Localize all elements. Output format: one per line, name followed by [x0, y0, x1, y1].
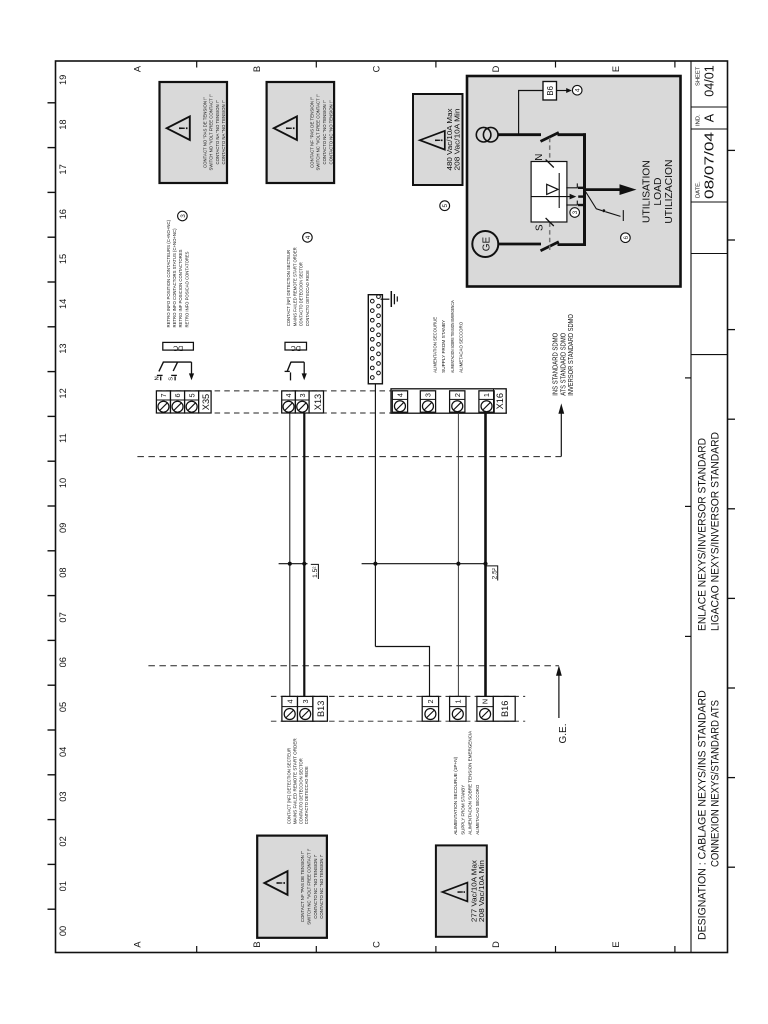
svg-text:A: A — [703, 113, 717, 122]
svg-text:LOAD: LOAD — [653, 178, 664, 206]
balloon 3 (X35) — [178, 211, 188, 221]
svg-text:04: 04 — [58, 747, 68, 757]
svg-text:4: 4 — [305, 235, 312, 239]
contact hook N — [566, 183, 585, 187]
svg-text:!: ! — [274, 881, 288, 885]
svg-text:INVERSOR STANDARD SDMO: INVERSOR STANDARD SDMO — [568, 314, 575, 396]
wire X13-4 to B13-4 — [289, 413, 291, 696]
svg-text:01: 01 — [58, 881, 68, 891]
warning box 480Vac — [413, 94, 463, 185]
B6 arrow — [557, 88, 572, 93]
wire GE drop — [498, 243, 541, 246]
control box — [531, 162, 567, 223]
warning box W2 contact NF — [267, 82, 335, 183]
svg-text:DC: DC — [173, 344, 183, 351]
svg-text:ALIMETACAO SECCORO: ALIMETACAO SECCORO — [475, 785, 481, 835]
row zone ticks left edge — [197, 946, 675, 953]
svg-text:1: 1 — [453, 699, 462, 703]
contact group above X35 (retro info) — [154, 362, 194, 381]
svg-text:ALIMENTACION SOBRE TENSION EME: ALIMENTACION SOBRE TENSION EMERGENCIA — [468, 730, 474, 835]
svg-text:CONTACTO DETECCION SECTOR: CONTACTO DETECCION SECTOR — [298, 758, 304, 824]
svg-text:D: D — [491, 65, 501, 72]
svg-text:RETRO INF POSICION CONTACTORES: RETRO INF POSICION CONTACTORES — [178, 250, 184, 328]
balloon 5 (480 box) — [440, 201, 450, 211]
svg-text:IND.: IND. — [696, 114, 702, 126]
zone dashed line 2 (GE boundary) — [148, 665, 559, 667]
svg-text:6: 6 — [173, 393, 182, 397]
svg-text:DC: DC — [291, 344, 301, 351]
terminal block X16 — [391, 389, 506, 413]
wire mains lower — [558, 133, 586, 136]
svg-text:16: 16 — [58, 209, 68, 219]
svg-text:2: 2 — [453, 393, 462, 397]
svg-text:CONTACT NO "PAS DE TENSION !": CONTACT NO "PAS DE TENSION !" — [202, 97, 207, 168]
label INS STANDARD SDMO with arrow — [553, 314, 575, 457]
svg-text:19: 19 — [58, 75, 68, 85]
svg-text:CONTACTO NC "NO TENSION !": CONTACTO NC "NO TENSION !" — [322, 100, 327, 164]
common line with arrow — [531, 194, 576, 200]
label G.E. with arrow — [556, 665, 569, 743]
balloon 4 (X13) — [303, 233, 313, 243]
svg-text:B13: B13 — [316, 701, 326, 717]
svg-text:04/01: 04/01 — [703, 65, 717, 97]
svg-text:S: S — [169, 377, 175, 381]
svg-text:!: ! — [456, 890, 468, 894]
svg-text:SUPPLY FROM STANBY: SUPPLY FROM STANBY — [441, 319, 447, 373]
svg-text:DATE.: DATE. — [696, 181, 702, 198]
terminal block B13 — [282, 696, 328, 721]
svg-text:CONTACTO DETECCAO REDE: CONTACTO DETECCAO REDE — [304, 766, 310, 824]
svg-text:06: 06 — [58, 657, 68, 667]
svg-text:X35: X35 — [201, 394, 211, 410]
svg-text:C: C — [372, 941, 382, 948]
label 2.5mm — [487, 566, 499, 581]
svg-text:UTILISATION: UTILISATION — [642, 160, 653, 223]
svg-text:SHEET: SHEET — [696, 66, 702, 86]
terminal block B16 — [422, 696, 515, 721]
svg-text:ALIMETACAO SECCORO: ALIMETACAO SECCORO — [459, 322, 465, 373]
svg-text:SWITCH NC "VOLT FREE CONTACT !: SWITCH NC "VOLT FREE CONTACT !" — [307, 848, 312, 924]
warning box 277Vac — [436, 845, 487, 936]
svg-text:C: C — [372, 65, 382, 72]
ATS enclosure box — [467, 76, 681, 287]
svg-text:E: E — [611, 66, 621, 72]
svg-text:CONTACTO DETECCAO REDE: CONTACTO DETECCAO REDE — [305, 270, 311, 326]
ground symbol — [381, 291, 398, 307]
GE switch blade — [541, 242, 559, 251]
cable marker junction 1.5 — [279, 562, 308, 566]
balloon 4 (B6) — [572, 85, 582, 95]
svg-text:6: 6 — [623, 235, 630, 239]
output bus — [583, 133, 586, 246]
svg-text:277 Vac/10A Max: 277 Vac/10A Max — [472, 859, 479, 922]
svg-text:X16: X16 — [495, 393, 505, 409]
svg-text:14: 14 — [58, 299, 68, 309]
svg-text:INS STANDARD SDMO: INS STANDARD SDMO — [553, 332, 560, 396]
svg-text:G.E.: G.E. — [558, 724, 569, 744]
generator GE circle — [472, 231, 498, 257]
svg-text:3: 3 — [301, 699, 310, 703]
svg-text:SWITCH NC "VOLT FREE CONTACT !: SWITCH NC "VOLT FREE CONTACT !" — [316, 94, 321, 170]
ruler ticks bottom edge — [728, 150, 736, 867]
wire transformer drop — [498, 133, 541, 136]
title strip top line — [690, 61, 692, 953]
svg-text:CONTACT NF "PAS DE TENSION !": CONTACT NF "PAS DE TENSION !" — [309, 97, 314, 168]
label 1.5mm — [311, 564, 319, 579]
svg-text:ALIMENTATION SECOURUE: ALIMENTATION SECOURUE — [433, 317, 439, 373]
ruler ticks top edge — [48, 103, 56, 909]
DC box X35 — [163, 342, 194, 351]
cable marker junction 2.5 — [362, 562, 488, 566]
svg-text:7: 7 — [159, 393, 168, 397]
date box — [696, 132, 717, 199]
label text B16 supply — [453, 730, 481, 835]
row zone ticks right edge — [197, 61, 675, 68]
transformer symbol — [476, 127, 498, 142]
svg-text:CONTACTO NC "NO TENSION !": CONTACTO NC "NO TENSION !" — [319, 854, 324, 918]
wire connector to B16-2 — [375, 384, 429, 697]
svg-text:10: 10 — [58, 478, 68, 488]
svg-text:ATS STANDARD SDMO: ATS STANDARD SDMO — [560, 332, 567, 396]
svg-text:!: ! — [176, 126, 190, 130]
warning box W3 contact NF — [257, 836, 327, 938]
title block dividers — [691, 107, 728, 355]
svg-text:CONTACT (NF) DETECTION SECTEUR: CONTACT (NF) DETECTION SECTEUR — [287, 747, 293, 824]
svg-text:08: 08 — [58, 567, 68, 577]
label S — [535, 224, 546, 231]
svg-text:07: 07 — [58, 612, 68, 622]
terminal block X35 — [156, 391, 211, 413]
label text X13 — [286, 247, 311, 326]
load text — [642, 160, 676, 224]
svg-text:ALIMENTACION SOBRE TENSION EME: ALIMENTACION SOBRE TENSION EMERGENCIA — [450, 300, 456, 373]
svg-text:ENLACE NEXYS/INVERSOR STANDARD: ENLACE NEXYS/INVERSOR STANDARD — [697, 438, 709, 631]
svg-text:CONTACTO NC "NO TENSION !": CONTACTO NC "NO TENSION !" — [328, 100, 333, 164]
B-rail dashed upper — [271, 695, 525, 697]
svg-text:208 Vac/10A Min: 208 Vac/10A Min — [479, 860, 486, 922]
svg-text:DESIGNATION : CABLAGE NEXYS/I: DESIGNATION : CABLAGE NEXYS/INS STANDARD — [697, 690, 709, 940]
svg-text:4: 4 — [575, 88, 582, 92]
svg-text:X13: X13 — [313, 394, 323, 410]
svg-text:D: D — [491, 941, 501, 948]
label text B13 — [287, 738, 310, 825]
svg-text:!: ! — [434, 138, 446, 142]
contact group above X13 (mains failed) — [285, 362, 307, 380]
svg-text:MAINS FAILED REMOTE START ORDE: MAINS FAILED REMOTE START ORDER — [293, 738, 299, 825]
aux switch line — [586, 192, 624, 222]
row letters right edge — [133, 65, 621, 72]
B-rail dashed lower — [271, 720, 525, 722]
svg-text:4: 4 — [285, 699, 294, 703]
linkage dashed line — [549, 137, 551, 250]
svg-text:09: 09 — [58, 523, 68, 533]
X-rail dashed lower — [156, 412, 507, 414]
wire X16-2 to B16-1 — [457, 413, 459, 696]
terminal block X13 — [282, 391, 324, 413]
label N — [534, 154, 545, 161]
svg-text:CONTACTO NA "NO TENSION !": CONTACTO NA "NO TENSION !" — [221, 100, 226, 164]
X-rail dashed upper — [156, 390, 507, 392]
sheet box — [696, 65, 717, 97]
svg-text:SWITCH NO "VOLT FREE CONTACT !: SWITCH NO "VOLT FREE CONTACT !" — [209, 94, 214, 170]
svg-text:A: A — [133, 941, 143, 948]
svg-text:B: B — [252, 66, 262, 72]
svg-text:3: 3 — [572, 210, 579, 214]
svg-text:B16: B16 — [500, 701, 510, 717]
ticks on title strip line — [685, 378, 691, 637]
svg-text:08/07/04: 08/07/04 — [703, 132, 717, 199]
label text X35 — [166, 220, 190, 328]
ruler numbers 00-19 — [58, 75, 68, 937]
svg-text:UTILIZACION: UTILIZACION — [664, 160, 675, 224]
svg-text:4: 4 — [284, 393, 293, 397]
DC box X13 — [285, 342, 307, 351]
svg-text:3: 3 — [298, 393, 307, 397]
svg-text:RETRO INFO POSITION CONTACTEUR: RETRO INFO POSITION CONTACTEURS (C+NO+NC… — [166, 220, 172, 328]
svg-text:SUPPLY FROM STANBY: SUPPLY FROM STANBY — [460, 784, 466, 835]
coil triangle — [547, 184, 558, 194]
svg-text:18: 18 — [58, 119, 68, 129]
B6 box — [543, 82, 557, 101]
wire GE lower — [558, 243, 586, 246]
apex link line — [558, 173, 560, 208]
wire X13-3 to B13-3 — [303, 413, 305, 696]
svg-text:13: 13 — [58, 343, 68, 353]
svg-text:CONTACT NF "PAS DE TENSION !": CONTACT NF "PAS DE TENSION !" — [300, 851, 305, 922]
svg-text:208 Vac/10A Min: 208 Vac/10A Min — [454, 108, 461, 170]
balloon 3 (relay) — [570, 208, 580, 218]
label text X16 supply — [433, 300, 465, 373]
load arrow — [585, 184, 637, 195]
svg-text:15: 15 — [58, 254, 68, 264]
svg-text:RETRO INFO POSICAO CONTATORES: RETRO INFO POSICAO CONTATORES — [184, 252, 190, 328]
row letters left edge — [133, 941, 621, 948]
svg-text:N: N — [534, 154, 545, 161]
svg-text:11: 11 — [58, 433, 68, 443]
svg-text:480 Vac/10A Max: 480 Vac/10A Max — [447, 108, 454, 171]
svg-text:05: 05 — [58, 702, 68, 712]
svg-text:B6: B6 — [546, 86, 555, 96]
warning box W1 contact NO — [160, 82, 228, 183]
svg-text:LIGACAO NEXYS/INVERSOR STANDAR: LIGACAO NEXYS/INVERSOR STANDARD — [710, 432, 722, 631]
ind box — [696, 113, 717, 126]
svg-text:00: 00 — [58, 926, 68, 936]
svg-text:E: E — [611, 941, 621, 947]
svg-text:!: ! — [283, 126, 297, 130]
enlace text — [697, 432, 722, 631]
common thick stub — [578, 195, 585, 197]
svg-text:02: 02 — [58, 836, 68, 846]
svg-text:CONTACTO DETECCION SECTOR: CONTACTO DETECCION SECTOR — [299, 262, 305, 326]
contact hook S — [566, 201, 585, 205]
svg-text:5: 5 — [187, 393, 196, 397]
connector J1 — [368, 295, 382, 384]
svg-text:2: 2 — [426, 699, 435, 703]
svg-text:N: N — [154, 376, 160, 380]
svg-text:12: 12 — [58, 388, 68, 398]
svg-text:S: S — [535, 224, 546, 231]
balloon 6 (aux) — [621, 233, 631, 243]
svg-text:MAINS FAILED REMOTE START ORDE: MAINS FAILED REMOTE START ORDER — [292, 247, 298, 326]
mains switch blade — [541, 133, 559, 142]
svg-text:CONTACTO NC "NO TENSION !": CONTACTO NC "NO TENSION !" — [313, 854, 318, 918]
svg-text:ALIMENTATION SECOURUE (1P+N): ALIMENTATION SECOURUE (1P+N) — [453, 756, 459, 834]
wire to B6 — [519, 91, 543, 135]
svg-text:CONNEXION NEXYS/STANDARD ATS: CONNEXION NEXYS/STANDARD ATS — [710, 700, 722, 867]
svg-text:5: 5 — [442, 203, 449, 207]
svg-text:3: 3 — [424, 393, 433, 397]
svg-text:03: 03 — [58, 791, 68, 801]
svg-text:1.5²: 1.5² — [312, 566, 319, 578]
svg-text:CONTACTO NA "NO TENSION !": CONTACTO NA "NO TENSION !" — [215, 100, 220, 164]
svg-text:3: 3 — [180, 214, 187, 218]
svg-text:B: B — [252, 941, 262, 947]
svg-text:4: 4 — [396, 393, 405, 397]
svg-text:RETRO INFO CONTACTORS STATUS (: RETRO INFO CONTACTORS STATUS (C+NO+NC) — [172, 228, 178, 327]
aux blade S — [546, 218, 554, 226]
svg-text:GE: GE — [481, 236, 492, 251]
zone dashed line 1 (INS boundary) — [137, 456, 561, 458]
aux blade N — [546, 160, 554, 168]
svg-text:1: 1 — [482, 393, 491, 397]
svg-text:N: N — [481, 699, 490, 704]
border frame — [56, 61, 728, 953]
wire X16-1 to B16-N — [484, 413, 487, 696]
designation text — [697, 690, 722, 940]
svg-text:17: 17 — [58, 164, 68, 174]
svg-text:A: A — [133, 65, 143, 72]
svg-text:CONTACT (NF) DETECTION SECTEUR: CONTACT (NF) DETECTION SECTEUR — [286, 249, 292, 326]
